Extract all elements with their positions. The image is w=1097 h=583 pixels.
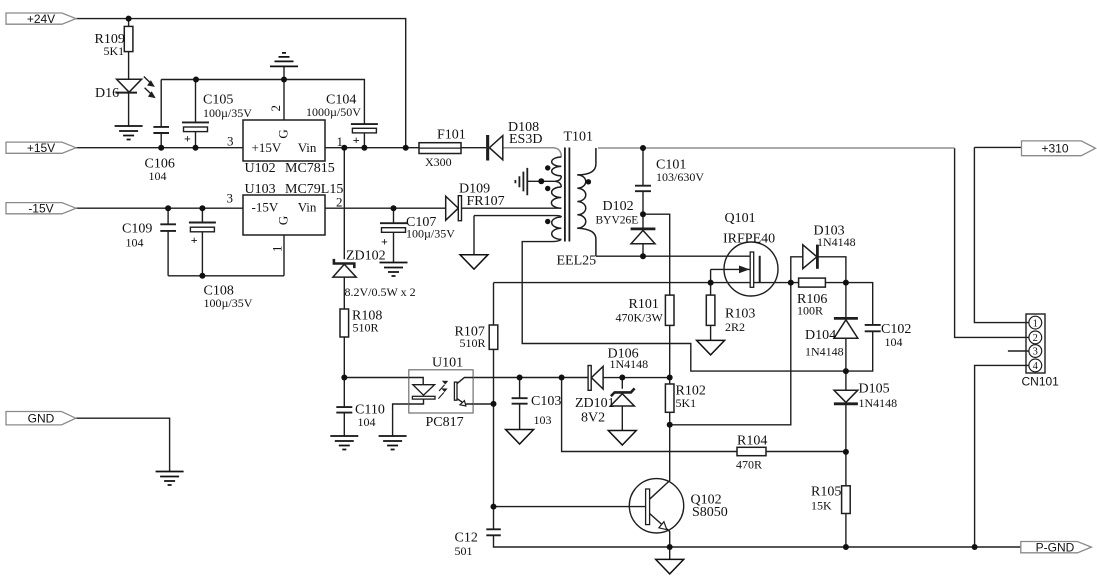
svg-text:1000µ/50V: 1000µ/50V (306, 105, 361, 119)
svg-text:3: 3 (227, 134, 234, 149)
svg-text:IRFPE40: IRFPE40 (723, 232, 775, 247)
svg-text:470K/3W: 470K/3W (616, 311, 664, 325)
svg-text:+24V: +24V (27, 12, 55, 26)
svg-text:D102: D102 (603, 199, 634, 214)
svg-text:Vin: Vin (298, 200, 317, 215)
svg-text:104: 104 (885, 335, 903, 349)
svg-text:510R: 510R (460, 336, 486, 350)
svg-text:ZD102: ZD102 (346, 249, 386, 264)
svg-text:U103: U103 (245, 182, 276, 197)
svg-text:1N4148: 1N4148 (859, 396, 898, 410)
svg-text:501: 501 (455, 544, 473, 558)
svg-text:5K1: 5K1 (104, 44, 125, 58)
svg-text:2: 2 (268, 105, 283, 112)
svg-text:8V2: 8V2 (581, 411, 605, 426)
svg-text:+: + (184, 132, 191, 146)
svg-text:510R: 510R (353, 321, 379, 335)
svg-text:C109: C109 (122, 222, 152, 237)
svg-text:X300: X300 (425, 155, 452, 169)
svg-text:+: + (353, 133, 360, 147)
svg-text:1: 1 (1033, 318, 1038, 329)
svg-text:103/630V: 103/630V (656, 170, 704, 184)
svg-text:G: G (275, 216, 290, 225)
svg-text:+: + (381, 234, 388, 248)
svg-text:2: 2 (1033, 333, 1038, 344)
svg-text:1N4148: 1N4148 (805, 345, 844, 359)
svg-text:1N4148: 1N4148 (817, 235, 856, 249)
svg-text:+: + (191, 233, 198, 247)
svg-text:100µ/35V: 100µ/35V (204, 296, 253, 310)
svg-text:3: 3 (227, 191, 234, 206)
svg-text:CN101: CN101 (1022, 375, 1060, 389)
svg-text:U101: U101 (432, 356, 463, 371)
svg-text:D16: D16 (95, 86, 119, 101)
svg-text:R105: R105 (811, 485, 841, 500)
svg-text:1N4148: 1N4148 (610, 357, 649, 371)
svg-text:470R: 470R (736, 458, 762, 472)
svg-text:GND: GND (28, 412, 55, 426)
svg-text:15K: 15K (811, 499, 832, 513)
svg-text:+15V: +15V (27, 141, 55, 155)
svg-text:+15V: +15V (252, 140, 282, 155)
svg-text:1: 1 (337, 134, 344, 149)
svg-text:3: 3 (1033, 347, 1038, 358)
svg-text:R104: R104 (737, 434, 767, 449)
svg-text:104: 104 (358, 415, 376, 429)
svg-text:103: 103 (534, 413, 552, 427)
svg-text:G: G (275, 129, 290, 138)
svg-text:2: 2 (336, 195, 343, 210)
svg-text:5K1: 5K1 (676, 396, 697, 410)
svg-text:EEL25: EEL25 (557, 254, 597, 269)
svg-text:P-GND: P-GND (1036, 540, 1075, 554)
svg-text:ZD101: ZD101 (575, 396, 615, 411)
svg-text:-15V: -15V (252, 200, 279, 215)
svg-text:100µ/35V: 100µ/35V (203, 106, 252, 120)
svg-text:2R2: 2R2 (725, 320, 745, 334)
svg-text:BYV26E: BYV26E (596, 215, 639, 227)
svg-text:104: 104 (149, 169, 167, 183)
svg-text:D105: D105 (859, 382, 890, 397)
svg-text:100µ/35V: 100µ/35V (406, 227, 455, 241)
svg-text:104: 104 (126, 236, 144, 250)
svg-text:FR107: FR107 (467, 194, 505, 209)
svg-text:Q101: Q101 (725, 211, 756, 226)
svg-text:4: 4 (1033, 361, 1039, 372)
svg-text:U102: U102 (245, 161, 276, 176)
svg-text:8.2V/0.5W x 2: 8.2V/0.5W x 2 (345, 285, 416, 299)
svg-text:MC7815: MC7815 (285, 161, 335, 176)
svg-text:1: 1 (269, 246, 284, 253)
svg-text:D104: D104 (805, 328, 836, 343)
svg-text:100R: 100R (797, 304, 823, 318)
svg-text:-15V: -15V (28, 202, 53, 216)
svg-text:+310: +310 (1041, 142, 1068, 156)
svg-text:PC817: PC817 (426, 415, 464, 430)
svg-text:T101: T101 (564, 130, 594, 145)
svg-text:C103: C103 (531, 394, 561, 409)
svg-text:S8050: S8050 (692, 505, 728, 520)
svg-text:ES3D: ES3D (509, 132, 542, 147)
svg-text:F101: F101 (437, 128, 466, 143)
svg-text:Vin: Vin (298, 140, 317, 155)
svg-text:MC79L15: MC79L15 (285, 182, 343, 197)
